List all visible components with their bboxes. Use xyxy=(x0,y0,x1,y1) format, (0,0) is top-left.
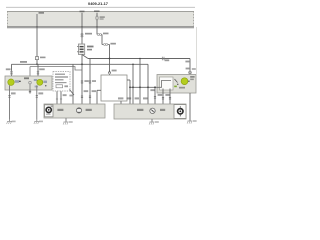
connector chevron into switch xyxy=(108,71,111,74)
node bus S left xyxy=(129,86,131,88)
node fuse F1 output xyxy=(36,26,38,28)
turn lamp bulb RH-side label xyxy=(34,79,37,81)
BCM label xyxy=(137,109,143,111)
detail inset (dashed box) xyxy=(53,72,70,92)
wire inset drop 1 xyxy=(56,91,58,104)
ground G4 stub xyxy=(151,119,153,122)
middle bulb symbol xyxy=(29,81,32,84)
K2 label xyxy=(86,109,92,111)
wire x73 drop from bus P xyxy=(72,64,74,104)
wire RH lamp ground run xyxy=(189,93,191,121)
wire x121 from switch bottom xyxy=(120,101,122,104)
wire from F3: jog with connector pairs xyxy=(96,27,98,35)
node turn feed junction xyxy=(36,63,38,65)
connector pair on F1 lamp drop xyxy=(37,71,39,73)
wire flasher output down xyxy=(81,55,83,105)
internal wire route xyxy=(157,81,171,88)
title rule xyxy=(6,6,195,8)
labels above rear box drops xyxy=(127,97,132,99)
motor M1 xyxy=(178,109,183,114)
wire from F1 down xyxy=(36,27,38,64)
wire label right of F1 drop xyxy=(39,68,45,70)
RH lamp labels xyxy=(190,76,194,78)
rear combination lamp assembly (right box) xyxy=(157,75,196,94)
connector C1 on F1 wire xyxy=(35,57,38,60)
wire from F2 down xyxy=(81,27,83,44)
fuse F3 rating label xyxy=(100,16,105,17)
horn unit H1 housing xyxy=(45,105,54,117)
connector ticks on LH return xyxy=(8,95,10,97)
wire RH lamp internal drop 2 xyxy=(169,89,171,105)
fuse F3 value label xyxy=(94,10,100,12)
inner connector housing xyxy=(160,77,174,90)
lamp box inner marks xyxy=(35,86,38,88)
middle lamp label xyxy=(24,77,29,79)
wire flasher diagonal to bus R xyxy=(82,55,88,59)
motor housing xyxy=(174,105,186,119)
connector pair on wire x82 xyxy=(81,80,83,82)
wire bus S (y87.3) xyxy=(130,86,157,88)
wire x140 xyxy=(139,59,141,105)
wire middle stub below lamp box xyxy=(29,90,31,94)
wire F1 drop to lamp xyxy=(37,64,39,79)
wire bus P right elbow down xyxy=(147,64,149,104)
relay symbol K2 xyxy=(76,108,81,113)
ground G4 xyxy=(150,121,155,123)
wire x90 drop from bus R xyxy=(89,59,91,105)
ground G1 xyxy=(9,120,11,122)
wire label left xyxy=(6,68,11,70)
flasher relay U1 xyxy=(79,44,85,55)
wire bus R (y58) xyxy=(88,58,190,60)
switch contact marks xyxy=(175,79,178,83)
wire lamp LH return xyxy=(9,86,11,120)
fuse F1 value label xyxy=(39,12,45,14)
relay symbol K3 xyxy=(150,108,155,113)
connector pair C3 xyxy=(102,44,103,46)
connector pair on flasher feed xyxy=(81,33,83,35)
connector pair C2 xyxy=(97,34,99,36)
wire x133 xyxy=(132,64,134,104)
node fuse F3 output xyxy=(96,26,98,28)
turn lamp bulb LH xyxy=(8,79,14,85)
turn lamp bulb RH xyxy=(181,78,188,85)
node flasher-busP junction xyxy=(81,63,83,65)
fuse F3 xyxy=(96,13,98,16)
svg-text:0409-21-17: 0409-21-17 xyxy=(88,1,108,6)
ground G3 xyxy=(64,121,69,123)
wire Q drop middle xyxy=(29,67,31,82)
K3 label xyxy=(160,109,165,111)
wire bus P left drop to lamp LH xyxy=(11,64,13,79)
inset pointer arrow xyxy=(70,90,75,96)
K1 label xyxy=(57,109,63,111)
wire inset drop 2 xyxy=(60,91,62,104)
ground G3 stub xyxy=(65,118,67,122)
fuse F1 xyxy=(36,14,38,27)
relay/junction block (bottom left box) xyxy=(44,104,105,118)
turn lamp bulb 2 xyxy=(37,79,43,85)
page edge line right xyxy=(196,27,198,74)
junction box (top power distribution box) xyxy=(7,11,194,27)
wire switch right output xyxy=(127,79,130,81)
wire switch feed down xyxy=(109,45,111,71)
LH return label xyxy=(11,92,16,94)
connector on x163 line inline xyxy=(161,57,163,61)
node switch feed crosses bus R xyxy=(109,58,111,60)
flasher U1 label xyxy=(87,46,94,48)
wire bus R right elbow down to RH lamp xyxy=(189,59,191,75)
front combination lamp assembly (left box) xyxy=(5,76,52,90)
horn symbol H1 xyxy=(46,107,51,112)
node fuse F2 output xyxy=(81,26,83,28)
wire RH lamp internal drop 1 xyxy=(162,89,164,105)
fuse F2 value label xyxy=(80,11,85,13)
wire switch left output xyxy=(97,89,101,91)
ground G5 xyxy=(188,120,193,122)
turn signal switch (white box) xyxy=(101,75,127,101)
connector pair on LH lamp feed xyxy=(11,71,13,73)
ground G2 xyxy=(36,120,38,122)
body control module (bottom right box) xyxy=(114,104,186,119)
wire lamp2 return xyxy=(36,85,38,119)
wire x155 from bus S xyxy=(154,87,156,104)
wire left turn bus P xyxy=(12,63,149,65)
fuse F2 xyxy=(81,13,83,27)
bus P label xyxy=(20,61,27,63)
wire bus Q xyxy=(30,67,82,70)
lamp LH label xyxy=(15,80,19,83)
